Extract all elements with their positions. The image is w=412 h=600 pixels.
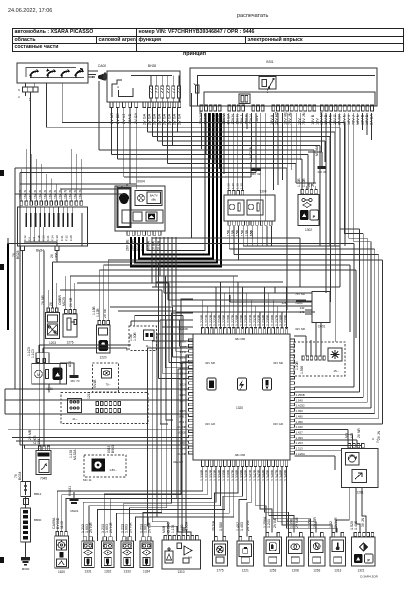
svg-text:F.15: F.15 [37, 235, 41, 241]
svg-text:BSI1: BSI1 [266, 60, 273, 64]
svg-text:9: 9 [371, 438, 375, 440]
svg-text:1.15B: 1.15B [227, 229, 231, 239]
svg-text:2V GA: 2V GA [163, 113, 167, 125]
svg-text:BG34: BG34 [18, 471, 22, 480]
svg-text:1.313: 1.313 [296, 447, 304, 451]
svg-text:1.10B: 1.10B [295, 361, 299, 370]
svg-text:21--: 21-- [73, 417, 78, 421]
svg-text:70--: 70-- [106, 383, 111, 387]
svg-text:11--: 11-- [146, 344, 151, 348]
svg-text:F.31: F.31 [60, 235, 64, 241]
svg-text:SV4B: SV4B [93, 379, 97, 388]
svg-text:2V NR: 2V NR [128, 522, 132, 533]
svg-text:P: P [313, 214, 316, 219]
svg-text:1.230B: 1.230B [244, 314, 248, 326]
svg-text:1.580: 1.580 [219, 522, 223, 531]
svg-text:2V GA: 2V GA [178, 113, 182, 125]
svg-text:0004: 0004 [137, 180, 145, 184]
svg-text:16V B: 16V B [311, 114, 315, 125]
svg-text:1.238B: 1.238B [279, 314, 283, 326]
svg-text:1333: 1333 [124, 570, 131, 574]
svg-text:F.23: F.23 [41, 235, 45, 241]
svg-text:2V GA: 2V GA [143, 113, 147, 125]
svg-text:1.241: 1.241 [267, 519, 271, 528]
svg-text:76V J: 76V J [240, 115, 244, 125]
svg-text:2V NR: 2V NR [109, 522, 113, 533]
svg-text:1211: 1211 [87, 392, 91, 399]
svg-text:1.225B: 1.225B [222, 314, 226, 326]
svg-text:1.345B: 1.345B [266, 469, 270, 481]
svg-text:CA00: CA00 [98, 64, 106, 68]
svg-text:A: A [117, 85, 119, 89]
svg-text:P: P [367, 559, 370, 563]
svg-text:1.403: 1.403 [240, 522, 244, 531]
svg-text:1.332B: 1.332B [209, 469, 213, 481]
svg-text:1.346B: 1.346B [270, 469, 274, 481]
svg-text:1.224B: 1.224B [218, 314, 222, 326]
svg-text:M000: M000 [22, 567, 30, 571]
svg-text:1221: 1221 [242, 569, 249, 573]
svg-text:1321: 1321 [357, 569, 364, 573]
svg-text:2: 2 [18, 95, 20, 99]
svg-text:1208: 1208 [292, 569, 299, 573]
svg-text:1.15B: 1.15B [245, 229, 249, 239]
svg-text:CH04C: CH04C [167, 522, 171, 533]
svg-text:1.203: 1.203 [296, 441, 304, 445]
svg-text:1.30B: 1.30B [133, 332, 137, 341]
svg-text:2V GA: 2V GA [158, 113, 162, 125]
svg-text:1.590: 1.590 [300, 366, 304, 374]
svg-text:1203: 1203 [49, 341, 56, 345]
svg-text:1.480: 1.480 [296, 414, 304, 418]
svg-text:1.229B: 1.229B [240, 314, 244, 326]
svg-text:F.9: F.9 [32, 237, 36, 241]
svg-text:2V NR: 2V NR [89, 522, 93, 533]
svg-text:1.233B: 1.233B [257, 314, 261, 326]
svg-text:32V GR: 32V GR [205, 422, 215, 426]
svg-text:1.347B: 1.347B [275, 469, 279, 481]
svg-text:1.349B: 1.349B [284, 469, 288, 481]
svg-text:C001: C001 [318, 325, 326, 329]
svg-text:1.A252: 1.A252 [296, 404, 306, 408]
svg-text:2V MR: 2V MR [28, 429, 32, 440]
svg-text:2V VG: 2V VG [246, 520, 250, 531]
svg-text:MC 70: MC 70 [71, 379, 80, 383]
svg-text:BG28: BG28 [16, 250, 20, 259]
svg-text:1.330B: 1.330B [200, 469, 204, 481]
svg-text:1.234B: 1.234B [262, 314, 266, 326]
svg-text:1302: 1302 [305, 228, 312, 232]
svg-text:1.420: 1.420 [296, 425, 304, 429]
svg-text:1.235B: 1.235B [266, 314, 270, 326]
svg-text:1.30: 1.30 [240, 183, 244, 189]
svg-text:MH01: MH01 [70, 509, 78, 513]
svg-text:2V NR: 2V NR [357, 428, 361, 438]
svg-text:48v MR: 48v MR [235, 453, 246, 457]
svg-text:1.211: 1.211 [179, 350, 186, 354]
svg-text:1.239B: 1.239B [284, 314, 288, 326]
svg-text:2V JN: 2V JN [377, 430, 381, 440]
svg-text:1.393: 1.393 [296, 436, 304, 440]
svg-text:32V NR: 32V NR [273, 361, 283, 365]
svg-text:1.540: 1.540 [296, 398, 304, 402]
svg-text:M136A: M136A [315, 145, 319, 156]
svg-text:15--: 15-- [333, 369, 338, 373]
svg-text:1.427: 1.427 [296, 430, 304, 434]
svg-text:1206: 1206 [55, 252, 59, 260]
svg-text:1.334B: 1.334B [218, 469, 222, 481]
svg-text:3V JN: 3V JN [361, 517, 365, 527]
svg-text:76V JN: 76V JN [302, 112, 306, 125]
svg-text:26V BE: 26V BE [126, 239, 130, 251]
svg-text:1.337B: 1.337B [231, 469, 235, 481]
svg-text:F.12: F.12 [23, 235, 27, 241]
svg-text:32V GR: 32V GR [273, 422, 283, 426]
svg-text:1.223B: 1.223B [213, 314, 217, 326]
svg-text:1.335B: 1.335B [222, 469, 226, 481]
svg-text:1.226B: 1.226B [226, 314, 230, 326]
svg-text:2V: 2V [50, 253, 54, 258]
svg-text:1.15B: 1.15B [231, 229, 235, 239]
svg-text:1.222B: 1.222B [209, 314, 213, 326]
svg-text:BB00: BB00 [34, 518, 42, 522]
svg-text:1.221B: 1.221B [204, 314, 208, 326]
svg-text:1.344B: 1.344B [262, 469, 266, 481]
svg-text:16V: 16V [255, 115, 259, 122]
svg-text:2V GR: 2V GR [313, 517, 317, 528]
svg-text:1.350: 1.350 [296, 420, 304, 424]
svg-text:32V NR: 32V NR [295, 327, 305, 331]
svg-text:1276: 1276 [66, 341, 73, 345]
svg-text:1775: 1775 [216, 569, 223, 573]
svg-text:M4B: M4B [162, 525, 166, 533]
svg-text:A04: A04 [68, 361, 72, 367]
svg-text:2V GA: 2V GA [153, 113, 157, 125]
svg-text:1331: 1331 [84, 570, 91, 574]
svg-text:1.256B: 1.256B [296, 393, 305, 397]
svg-text:MC 11: MC 11 [83, 478, 92, 482]
svg-text:1.341B: 1.341B [248, 469, 252, 481]
svg-text:2V VE: 2V VE [69, 297, 73, 307]
svg-text:1313: 1313 [334, 569, 341, 573]
svg-text:BB12: BB12 [34, 492, 42, 496]
svg-text:F.6: F.6 [28, 237, 32, 241]
svg-text:1.21B: 1.21B [179, 377, 187, 381]
svg-text:2V GA: 2V GA [148, 113, 152, 125]
svg-text:1.338B: 1.338B [235, 469, 239, 481]
svg-text:F.34: F.34 [51, 235, 55, 241]
svg-text:MC 36: MC 36 [318, 170, 327, 174]
svg-text:1.232B: 1.232B [253, 314, 257, 326]
svg-text:1.1C3: 1.1C3 [31, 349, 35, 358]
svg-text:1.450: 1.450 [296, 409, 304, 413]
svg-text:/4260: /4260 [296, 301, 303, 305]
svg-text:F.32: F.32 [64, 235, 68, 241]
svg-text:7045: 7045 [40, 477, 47, 481]
svg-text:1.331B: 1.331B [204, 469, 208, 481]
svg-text:1.15B: 1.15B [240, 229, 244, 239]
svg-text:1.80--: 1.80-- [109, 468, 116, 472]
svg-text:D.3AR4.3OR: D.3AR4.3OR [360, 575, 378, 579]
svg-text:M132A: M132A [73, 449, 77, 460]
svg-text:426: 426 [282, 301, 287, 305]
svg-text:1.35B: 1.35B [308, 518, 312, 528]
svg-text:48v MR: 48v MR [235, 337, 246, 341]
svg-text:1.348B: 1.348B [279, 469, 283, 481]
svg-text:1620: 1620 [58, 570, 65, 574]
svg-text:1.A20A: 1.A20A [296, 452, 306, 456]
svg-text:1320: 1320 [236, 406, 243, 410]
svg-text:1140: 1140 [60, 521, 64, 529]
svg-text:OH: OH [188, 556, 192, 560]
svg-text:1.237B: 1.237B [275, 314, 279, 326]
svg-text:1.32: 1.32 [329, 521, 333, 528]
svg-text:1.12B: 1.12B [297, 178, 301, 187]
svg-text:MC32B: MC32B [249, 146, 253, 158]
svg-text:1.227B: 1.227B [231, 314, 235, 326]
svg-text:1.343B: 1.343B [257, 469, 261, 481]
svg-text:F.30: F.30 [55, 235, 59, 241]
svg-text:2V GA: 2V GA [173, 113, 177, 125]
svg-text:F.28: F.28 [69, 235, 73, 241]
svg-text:1.12B: 1.12B [302, 178, 306, 187]
svg-text:9: 9 [18, 88, 20, 92]
svg-text:MC25: MC25 [62, 297, 66, 306]
svg-text:1310: 1310 [177, 570, 184, 574]
svg-text:1.15B: 1.15B [236, 229, 240, 239]
svg-text:1334: 1334 [143, 570, 150, 574]
svg-text:2V BA: 2V BA [212, 520, 216, 531]
svg-text:32V NR: 32V NR [205, 361, 215, 365]
svg-text:1261: 1261 [356, 491, 363, 495]
svg-text:1.30: 1.30 [235, 183, 239, 189]
svg-text:2V GA: 2V GA [168, 113, 172, 125]
svg-text:F.21: F.21 [46, 235, 50, 241]
svg-text:1220: 1220 [99, 356, 106, 360]
svg-text:dBu: dBu [151, 198, 156, 202]
svg-text:2V NR: 2V NR [148, 522, 152, 533]
svg-text:1263: 1263 [313, 569, 320, 573]
svg-text:1.231B: 1.231B [248, 314, 252, 326]
svg-text:1.236B: 1.236B [270, 314, 274, 326]
svg-text:1.339B: 1.339B [240, 469, 244, 481]
svg-text:1.336B: 1.336B [226, 469, 230, 481]
svg-text:1.342B: 1.342B [253, 469, 257, 481]
svg-text:BH28: BH28 [148, 64, 156, 68]
svg-text:1.333B: 1.333B [213, 469, 217, 481]
svg-text:1.220B: 1.220B [200, 314, 204, 326]
svg-text:1253: 1253 [269, 569, 276, 573]
svg-text:1332: 1332 [104, 570, 111, 574]
svg-text:1.340B: 1.340B [244, 469, 248, 481]
svg-text:16: 16 [28, 97, 32, 101]
svg-text:1.39B: 1.39B [290, 518, 294, 528]
svg-text:1.135: 1.135 [171, 525, 175, 533]
svg-text:1.228B: 1.228B [235, 314, 239, 326]
